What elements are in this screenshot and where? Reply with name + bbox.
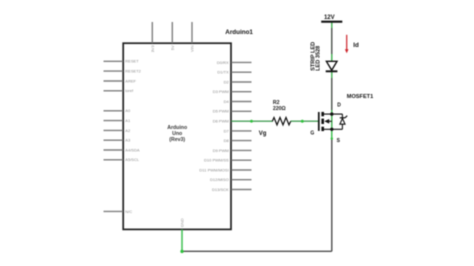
svg-text:A4/SDA: A4/SDA: [125, 147, 140, 152]
svg-text:A0: A0: [125, 108, 131, 113]
svg-text:A2: A2: [125, 128, 131, 133]
svg-text:12V: 12V: [324, 15, 335, 21]
svg-text:RESET: RESET: [125, 59, 139, 64]
svg-text:D5 PWM: D5 PWM: [213, 109, 229, 114]
svg-text:LED 3528: LED 3528: [316, 46, 322, 71]
svg-text:D6 PWM: D6 PWM: [213, 119, 229, 124]
svg-text:D2: D2: [224, 79, 230, 84]
svg-text:(Rev3): (Rev3): [169, 137, 185, 143]
svg-text:D8: D8: [224, 138, 230, 143]
svg-text:D11 PWM/MOSI: D11 PWM/MOSI: [199, 167, 228, 172]
svg-text:D10 PWM/SS: D10 PWM/SS: [204, 158, 229, 163]
svg-text:D13/SCK: D13/SCK: [212, 187, 229, 192]
svg-text:220Ω: 220Ω: [273, 106, 286, 112]
svg-text:D1/TX: D1/TX: [217, 70, 229, 75]
svg-text:D12/MISO: D12/MISO: [210, 177, 229, 182]
svg-text:D0/RX: D0/RX: [217, 60, 229, 65]
svg-text:G: G: [310, 130, 314, 136]
svg-text:GND: GND: [180, 218, 185, 227]
svg-text:A1: A1: [125, 118, 131, 123]
svg-text:Id: Id: [353, 42, 359, 49]
svg-text:Arduino1: Arduino1: [225, 29, 253, 36]
svg-text:RESET2: RESET2: [125, 69, 141, 74]
svg-text:D3 PWM: D3 PWM: [213, 89, 229, 94]
svg-text:A3: A3: [125, 138, 131, 143]
svg-text:N/C: N/C: [125, 209, 132, 214]
svg-text:D: D: [337, 102, 341, 108]
svg-text:A5/SCL: A5/SCL: [125, 157, 140, 162]
svg-text:MOSFET1: MOSFET1: [347, 94, 373, 100]
svg-text:D7: D7: [224, 128, 230, 133]
svg-text:3V3: 3V3: [150, 45, 155, 53]
svg-text:AREF: AREF: [125, 78, 136, 83]
svg-text:VIN: VIN: [190, 45, 195, 52]
svg-text:Vg: Vg: [259, 131, 267, 137]
svg-text:ioref: ioref: [125, 88, 134, 93]
svg-text:5V: 5V: [170, 45, 175, 50]
svg-text:D4: D4: [224, 99, 230, 104]
svg-text:D9 PWM: D9 PWM: [213, 148, 229, 153]
